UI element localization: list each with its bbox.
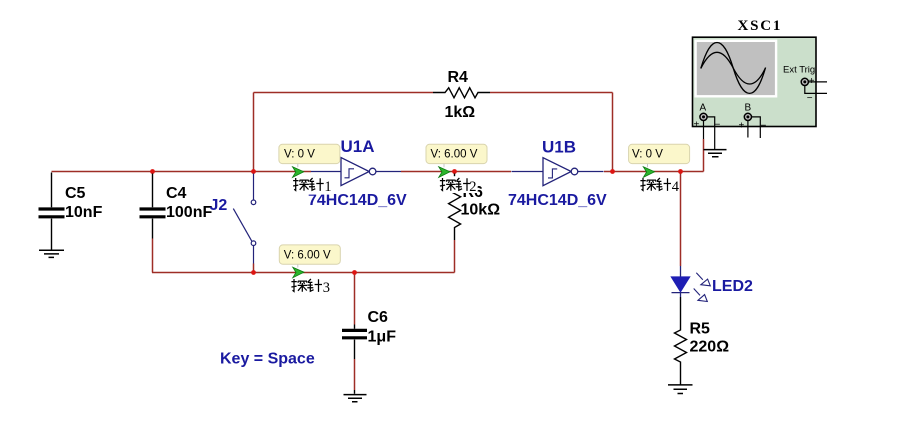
- node: junction R6/U1A output net: [452, 169, 457, 174]
- probe 1 stem: [297, 164, 299, 167]
- probe 3 tooltip box V: 6.00 V: [279, 245, 340, 264]
- resistor R5: [675, 297, 687, 385]
- svg-text:XSC1: XSC1: [738, 18, 783, 34]
- wire: scope channel A riser: [703, 139, 705, 172]
- svg-text:3: 3: [323, 280, 330, 296]
- capacitor C4: [140, 174, 166, 239]
- wire: U1B output to scope channel A riser: [604, 171, 704, 173]
- svg-text:1: 1: [324, 179, 331, 195]
- svg-text:2: 2: [469, 179, 476, 195]
- ground (scope A minus): [704, 150, 727, 157]
- svg-text:U1B: U1B: [542, 138, 576, 157]
- svg-text:C6: C6: [368, 309, 389, 326]
- wire: U1A output to U1B input: [401, 171, 511, 173]
- svg-text:1kΩ: 1kΩ: [445, 104, 476, 121]
- probe 2 arrow (探针2): [439, 167, 450, 178]
- ground (C6): [344, 395, 367, 402]
- wire: R4 feedback right leg to U1B output: [612, 93, 614, 172]
- svg-text:100nF: 100nF: [166, 204, 212, 221]
- XSC1 screen waveform trace A: [701, 43, 766, 94]
- probe 4 stem: [647, 164, 649, 167]
- svg-text:R5: R5: [690, 321, 711, 338]
- switch J2: [233, 174, 256, 264]
- svg-text:V: 6.00 V: V: 6.00 V: [284, 249, 331, 261]
- wire: R6 bottom lead to bottom net: [454, 240, 456, 273]
- svg-text:LED2: LED2: [712, 278, 753, 295]
- ground (R5): [668, 385, 693, 394]
- terminal B: [744, 113, 751, 120]
- capacitor C5: [39, 173, 65, 250]
- LED2 emission arrow 2: [694, 289, 708, 302]
- label 探针4: [639, 176, 680, 195]
- wire: A minus lead to ground: [707, 117, 715, 149]
- svg-text:−: −: [807, 93, 813, 104]
- wire: LED2 branch from output net: [680, 172, 682, 267]
- svg-text:+: +: [694, 120, 700, 131]
- wire: A plus lead down: [703, 121, 705, 139]
- wire: bottom net C4 to R6: [152, 272, 455, 274]
- node: junction R4 right leg/U1B output: [610, 169, 615, 174]
- svg-text:1μF: 1μF: [368, 329, 397, 346]
- svg-text:10kΩ: 10kΩ: [461, 202, 501, 219]
- probe 4 tooltip box V: 0 V: [629, 144, 690, 163]
- node: junction J2-R4/top net: [251, 169, 256, 174]
- wire: C4 lower lead to bottom net: [152, 239, 154, 273]
- terminal Ext Trig: [801, 78, 808, 85]
- svg-text:+: +: [739, 121, 745, 132]
- probe 1 arrow (探针1): [293, 167, 304, 178]
- op-amp U1A (Schmitt inverter): [311, 158, 401, 186]
- probe 2 tooltip box V: 6.00 V: [426, 144, 487, 163]
- wire: R4 feedback loop left leg: [253, 93, 255, 172]
- LED LED2: [672, 266, 690, 297]
- svg-text:Ext Trig: Ext Trig: [783, 65, 815, 76]
- wire: main horizontal net C5 to U1A input: [52, 171, 312, 173]
- LED2 emission arrow 1: [696, 273, 710, 286]
- node: junction C4/top net: [150, 169, 155, 174]
- svg-text:10nF: 10nF: [65, 204, 103, 221]
- resistor R6: [449, 174, 461, 241]
- wire: J2 lower stub to bottom net: [253, 264, 255, 273]
- probe 4 arrow (探针4): [643, 167, 654, 178]
- svg-text:C5: C5: [65, 185, 86, 202]
- op-amp U1B (Schmitt inverter): [512, 158, 604, 186]
- ground pin (C6): [354, 390, 356, 394]
- probe 1 tooltip box V: 0 V: [279, 144, 340, 163]
- svg-text:220Ω: 220Ω: [690, 339, 730, 356]
- svg-text:C4: C4: [166, 185, 187, 202]
- svg-text:−: −: [715, 120, 721, 131]
- label 探针1: [292, 176, 332, 195]
- svg-text:4: 4: [672, 179, 680, 195]
- svg-text:A: A: [700, 103, 707, 114]
- svg-text:U1A: U1A: [341, 137, 375, 156]
- svg-text:R4: R4: [448, 69, 469, 86]
- capacitor C6: [342, 325, 367, 360]
- node: junction C6/bottom net: [352, 270, 357, 275]
- resistor R4: [433, 88, 490, 98]
- wire: C6 to ground: [354, 359, 356, 390]
- svg-text:−: −: [761, 121, 767, 132]
- label 探针2: [439, 176, 478, 195]
- ground (C5): [39, 250, 64, 257]
- wire: B minus stub: [752, 117, 761, 138]
- svg-text:V: 6.00 V: V: 6.00 V: [431, 149, 478, 161]
- wire: C6 top lead from bottom net: [354, 273, 356, 325]
- node: junction J2/bottom net: [251, 270, 256, 275]
- XSC1 screen waveform trace B: [701, 52, 766, 84]
- probe 3 stem: [297, 264, 299, 267]
- svg-text:Key = Space: Key = Space: [220, 351, 315, 368]
- wire: B plus stub: [747, 121, 749, 138]
- svg-text:V: 0 V: V: 0 V: [632, 149, 663, 161]
- terminal A: [700, 113, 707, 120]
- svg-text:J2: J2: [210, 197, 228, 214]
- wire: Ext Trig minus stub: [805, 86, 827, 94]
- svg-text:B: B: [745, 103, 752, 114]
- node: junction LED2 branch/output net: [678, 169, 683, 174]
- wire: R4 feedback top right segment: [490, 92, 613, 94]
- svg-text:V: 0 V: V: 0 V: [284, 149, 315, 161]
- wire: R4 feedback top left segment: [254, 92, 434, 94]
- oscilloscope XSC1 body: [693, 37, 817, 126]
- probe 2 stem: [443, 164, 445, 167]
- probe 3 arrow (探针3): [293, 267, 304, 278]
- svg-text:74HC14D_6V: 74HC14D_6V: [508, 192, 607, 209]
- wire: Ext Trig plus stub: [809, 81, 828, 83]
- label 探针3: [290, 277, 330, 296]
